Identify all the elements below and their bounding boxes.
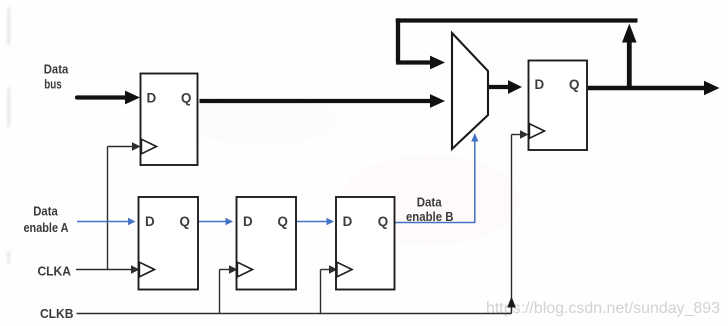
wire: data bus input arrow	[77, 95, 126, 99]
svg-text:enable B: enable B	[406, 209, 454, 224]
svg-text:Q: Q	[181, 90, 191, 105]
background blotch artifacts	[8, 7, 521, 264]
junction arrowhead on CLKB riser	[507, 297, 516, 308]
label Data bus	[44, 62, 69, 92]
svg-text:CLKA: CLKA	[37, 264, 71, 279]
flip-flop FF2 (enable sync stage 1)	[139, 197, 199, 290]
svg-text:D: D	[145, 214, 155, 229]
wire: final output arrow	[588, 86, 705, 90]
svg-text:D: D	[343, 214, 353, 229]
svg-text:Q: Q	[569, 77, 579, 92]
arrowhead into FF5 clock	[520, 130, 529, 139]
arrowhead into FF1 clock	[132, 142, 141, 151]
label Data enable A	[24, 204, 70, 236]
svg-text:Q: Q	[179, 214, 189, 229]
wire: CLKB net	[77, 135, 522, 314]
flip-flop FF4 (enable sync stage 3)	[336, 197, 395, 290]
svg-text:Data: Data	[417, 195, 443, 210]
wire: FF2 Q to FF3 D blue	[199, 221, 227, 223]
flip-flop FF5 (CLKB output register)	[529, 61, 588, 151]
svg-text:D: D	[146, 90, 156, 105]
wire: Data enable A blue net	[77, 221, 129, 223]
svg-text:Q: Q	[277, 214, 287, 229]
wire: mux output to right FF D	[489, 85, 509, 89]
svg-text:CLKB: CLKB	[40, 306, 74, 321]
svg-text:enable A: enable A	[24, 220, 70, 235]
arrowhead into FF2 clock	[131, 265, 140, 274]
svg-text:https://blog.csdn.net/sunday_8: https://blog.csdn.net/sunday_893	[486, 300, 720, 317]
svg-text:D: D	[243, 214, 253, 229]
wire: FF3 Q to FF4 D blue	[297, 221, 328, 223]
flip-flop FF1 (CLKA data register)	[141, 74, 198, 166]
svg-text:Data: Data	[33, 204, 58, 219]
wire: Data enable B blue net to mux select	[395, 141, 475, 223]
wire: feedback vertical up-arrow from output node	[627, 41, 632, 90]
svg-text:Q: Q	[378, 214, 388, 229]
svg-text:bus: bus	[44, 77, 62, 92]
flip-flop FF3 (enable sync stage 2)	[237, 197, 297, 290]
wire: feedback top bus	[396, 18, 638, 62]
label Data enable B	[406, 195, 454, 225]
mux U1	[452, 33, 488, 149]
svg-text:D: D	[534, 77, 544, 92]
arrowhead into FF4 clock	[329, 265, 338, 274]
arrowhead into FF3 clock	[229, 265, 238, 274]
svg-text:Data: Data	[44, 62, 69, 77]
wire: CLKA net	[76, 147, 134, 270]
wire: FF1 Q output bus to mux	[200, 99, 432, 103]
